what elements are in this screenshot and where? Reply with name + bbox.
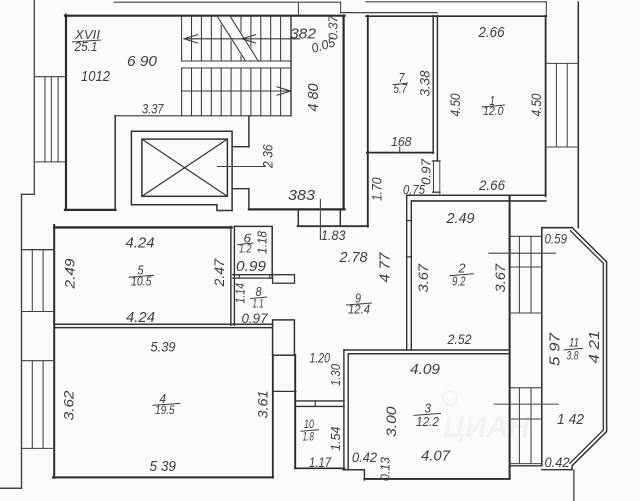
svg-text:1.70: 1.70 bbox=[370, 177, 385, 201]
svg-text:5 39: 5 39 bbox=[150, 459, 177, 475]
svg-text:3.67: 3.67 bbox=[492, 263, 508, 293]
svg-text:3.37: 3.37 bbox=[142, 102, 164, 117]
svg-text:11: 11 bbox=[569, 338, 579, 350]
svg-text:2 36: 2 36 bbox=[260, 144, 276, 169]
svg-text:0.99: 0.99 bbox=[236, 258, 267, 275]
svg-text:0.42: 0.42 bbox=[545, 455, 570, 470]
svg-text:4 21: 4 21 bbox=[587, 331, 603, 364]
svg-text:12.2: 12.2 bbox=[416, 415, 439, 429]
svg-text:6 90: 6 90 bbox=[127, 54, 157, 70]
svg-text:4.09: 4.09 bbox=[410, 362, 440, 378]
svg-text:5.39: 5.39 bbox=[151, 340, 176, 355]
svg-text:1.17: 1.17 bbox=[309, 455, 331, 470]
svg-text:1.30: 1.30 bbox=[328, 363, 343, 386]
svg-text:2.78: 2.78 bbox=[339, 249, 369, 266]
svg-text:1 42: 1 42 bbox=[557, 412, 584, 428]
svg-text:1.18: 1.18 bbox=[255, 230, 270, 254]
svg-text:4.24: 4.24 bbox=[126, 236, 155, 252]
svg-text:2: 2 bbox=[457, 262, 465, 276]
svg-text:0.97: 0.97 bbox=[419, 158, 434, 185]
svg-text:5 97: 5 97 bbox=[548, 332, 564, 366]
svg-text:4.50: 4.50 bbox=[528, 93, 544, 116]
svg-text:3.62: 3.62 bbox=[61, 390, 77, 420]
svg-text:4.07: 4.07 bbox=[421, 449, 451, 465]
svg-text:2.49: 2.49 bbox=[62, 258, 78, 289]
svg-text:10: 10 bbox=[304, 419, 314, 431]
svg-text:168: 168 bbox=[391, 134, 412, 149]
svg-text:3: 3 bbox=[425, 402, 432, 416]
svg-text:1.20: 1.20 bbox=[310, 351, 331, 366]
svg-text:3.00: 3.00 bbox=[384, 406, 399, 437]
svg-text:0.13: 0.13 bbox=[379, 457, 393, 481]
svg-text:1012: 1012 bbox=[81, 68, 111, 85]
svg-text:2.66: 2.66 bbox=[478, 177, 505, 193]
svg-text:4.50: 4.50 bbox=[447, 93, 463, 116]
svg-text:3.61: 3.61 bbox=[255, 391, 271, 419]
svg-text:3.38: 3.38 bbox=[418, 70, 433, 96]
svg-text:4.24: 4.24 bbox=[126, 310, 155, 326]
svg-text:383: 383 bbox=[288, 187, 316, 204]
svg-text:0.97: 0.97 bbox=[242, 310, 269, 326]
svg-text:4 77: 4 77 bbox=[378, 252, 394, 283]
svg-text:4 80: 4 80 bbox=[306, 84, 322, 112]
svg-text:0.42: 0.42 bbox=[352, 450, 377, 465]
svg-text:1.54: 1.54 bbox=[328, 427, 343, 452]
svg-text:1.83: 1.83 bbox=[321, 227, 346, 243]
svg-text:1.14: 1.14 bbox=[234, 283, 248, 304]
svg-text:2.47: 2.47 bbox=[212, 258, 227, 287]
svg-text:3.8: 3.8 bbox=[567, 351, 579, 363]
svg-text:2.49: 2.49 bbox=[446, 210, 476, 227]
svg-text:0.59: 0.59 bbox=[545, 232, 568, 247]
svg-text:ЦИАН: ЦИАН bbox=[443, 411, 531, 444]
svg-text:2.66: 2.66 bbox=[478, 24, 505, 41]
svg-text:9.2: 9.2 bbox=[452, 275, 466, 289]
svg-text:2.52: 2.52 bbox=[447, 331, 472, 347]
svg-text:1.8: 1.8 bbox=[303, 432, 315, 444]
svg-text:0.37: 0.37 bbox=[327, 14, 341, 40]
svg-text:3.67: 3.67 bbox=[415, 263, 431, 293]
